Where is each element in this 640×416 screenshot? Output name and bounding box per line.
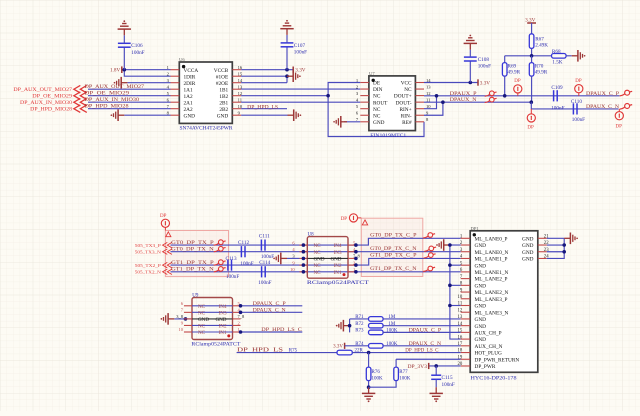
svg-text:U9: U9 bbox=[192, 294, 199, 299]
svg-text:49.9R: 49.9R bbox=[535, 69, 548, 75]
resistor R67 2.49K bbox=[529, 34, 548, 49]
port marker DPAUX_C_P bbox=[620, 90, 632, 96]
junction U9 right pin row 2 bbox=[239, 311, 243, 315]
blanket directive rectangle right bbox=[361, 218, 423, 276]
junction U9 right pin row 1 bbox=[239, 304, 243, 308]
wire U6 pin 15 (#1OE) bbox=[241, 75, 287, 77]
svg-text:14: 14 bbox=[238, 78, 243, 83]
wire R68 to ground bbox=[566, 55, 572, 57]
wire tie #1OE to #2OE bbox=[286, 76, 288, 83]
svg-text:#1OE: #1OE bbox=[216, 74, 228, 80]
svg-text:100K: 100K bbox=[386, 329, 398, 334]
svg-text:100nF: 100nF bbox=[240, 261, 253, 267]
svg-text:1B1: 1B1 bbox=[219, 87, 228, 93]
ground at U6 pin 15/14 (#1OE,#2OE) bbox=[287, 70, 301, 82]
svg-text:C108: C108 bbox=[478, 57, 490, 63]
svg-text:505_TX3_N: 505_TX3_N bbox=[135, 249, 162, 254]
svg-text:15: 15 bbox=[458, 329, 463, 334]
diff marker GT1_DP_TX_C_N bbox=[423, 266, 435, 271]
svg-text:GND: GND bbox=[522, 250, 534, 256]
svg-text:C114: C114 bbox=[259, 260, 270, 266]
junction U8 left pin row 4 bbox=[302, 263, 306, 267]
svg-text:RClamp0524PATCT: RClamp0524PATCT bbox=[191, 343, 240, 348]
svg-text:NC: NC bbox=[314, 270, 322, 276]
svg-text:100nF: 100nF bbox=[258, 280, 271, 286]
svg-text:IN1: IN1 bbox=[334, 270, 342, 276]
resistor R71 1M bbox=[350, 315, 461, 321]
wire R69 bottom to wire A bbox=[504, 76, 506, 96]
svg-text:R77: R77 bbox=[399, 370, 408, 375]
IC U9 RClamp0524PATCT body bbox=[176, 294, 245, 348]
svg-text:DP: DP bbox=[341, 217, 348, 222]
svg-text:GT1_DP_TX_C_P: GT1_DP_TX_C_P bbox=[370, 253, 416, 259]
svg-text:3.3V: 3.3V bbox=[333, 344, 343, 349]
svg-text:100nF: 100nF bbox=[226, 274, 239, 280]
capacitor C115 100nF bbox=[431, 366, 455, 388]
svg-text:NC: NC bbox=[198, 324, 206, 330]
junction U8 left pin row 2 bbox=[302, 250, 306, 254]
svg-text:GND: GND bbox=[522, 236, 534, 242]
wire U6 pin 12 (1B2) to U7 DE/RE# loop bbox=[241, 95, 328, 97]
port marker DPAUX_C_N bbox=[620, 104, 632, 110]
blanket directive rectangle left bbox=[165, 231, 228, 277]
junction U8 left pin row 3 bbox=[302, 257, 306, 261]
svg-text:DP_HPD_MIO28: DP_HPD_MIO28 bbox=[30, 107, 72, 113]
svg-text:15: 15 bbox=[238, 72, 243, 77]
junction R76 tap bbox=[367, 351, 371, 355]
svg-text:R70: R70 bbox=[535, 63, 544, 69]
svg-text:1A1: 1A1 bbox=[184, 87, 193, 93]
svg-text:DP_PWR_RETURN: DP_PWR_RETURN bbox=[475, 357, 520, 363]
wire U7 pin 14 (VCC) to 3.3V bbox=[424, 82, 478, 84]
svg-text:R76: R76 bbox=[372, 370, 381, 375]
svg-text:DP_AUX_OUT_MIO27: DP_AUX_OUT_MIO27 bbox=[85, 84, 145, 90]
svg-text:DP1: DP1 bbox=[471, 226, 480, 231]
capacitor C114 100nF series bbox=[258, 260, 271, 286]
svg-text:2A2: 2A2 bbox=[184, 107, 193, 113]
DP directive left blanket bbox=[160, 214, 171, 237]
svg-text:GND: GND bbox=[475, 263, 487, 269]
svg-text:DP_PWR: DP_PWR bbox=[475, 364, 496, 370]
svg-text:DE: DE bbox=[373, 81, 380, 87]
svg-text:R71: R71 bbox=[355, 315, 364, 320]
port DP_HPD_MIO28 bbox=[30, 105, 87, 113]
svg-text:DPAUX_N: DPAUX_N bbox=[450, 97, 477, 103]
svg-text:3.3V: 3.3V bbox=[295, 68, 305, 74]
svg-text:AUX_CH_P: AUX_CH_P bbox=[475, 330, 502, 336]
svg-text:505_TX2_P: 505_TX2_P bbox=[135, 263, 162, 268]
svg-text:14: 14 bbox=[458, 322, 463, 327]
power 3.3V at R74 bbox=[333, 343, 344, 350]
svg-text:12: 12 bbox=[238, 91, 243, 96]
diff marker GT0_DP_TX_C_P bbox=[423, 233, 435, 238]
diff marker GT1_DP_TX_C_P bbox=[424, 253, 436, 258]
junction #1OE bbox=[285, 74, 289, 78]
wire GT0_DP_TX_N lane bbox=[171, 251, 461, 253]
svg-text:C115: C115 bbox=[442, 375, 453, 381]
svg-text:HYC16-DP20-178: HYC16-DP20-178 bbox=[471, 376, 518, 381]
svg-text:12: 12 bbox=[458, 308, 463, 313]
svg-text:DP_AUX_IN_MIO30: DP_AUX_IN_MIO30 bbox=[85, 97, 140, 103]
wire 1.8V rail to U6 pin 1 (VCCA) bbox=[122, 69, 171, 71]
wire GT1_DP_TX_P lane bbox=[171, 258, 461, 265]
junction R76/R77 bottoms bbox=[367, 385, 371, 389]
svg-text:GT0_DP_TX_C_P: GT0_DP_TX_C_P bbox=[370, 233, 416, 239]
junction U8 right pin row 3 bbox=[354, 257, 358, 261]
wire DP_AUX_OUT_MIO27 to U6 pin 4 bbox=[88, 88, 171, 90]
svg-text:1B2: 1B2 bbox=[219, 94, 228, 100]
svg-text:1DIR: 1DIR bbox=[184, 74, 196, 80]
DP directive on DPAUX_C_N bbox=[615, 109, 623, 129]
svg-text:DP: DP bbox=[527, 125, 534, 130]
port DP_AUX_IN_MIO30 bbox=[20, 98, 87, 106]
svg-text:DPAUX_C_P: DPAUX_C_P bbox=[586, 91, 619, 97]
wire R67 bottom to rail bbox=[531, 48, 533, 55]
svg-text:GND: GND bbox=[215, 317, 226, 323]
port 505_TX2_N bbox=[135, 269, 172, 274]
svg-text:DP_HPD_LS_C: DP_HPD_LS_C bbox=[405, 348, 439, 354]
svg-text:RE#: RE# bbox=[402, 120, 412, 126]
resistor R73 100K bbox=[355, 329, 461, 335]
svg-text:GND: GND bbox=[373, 120, 385, 126]
svg-text:GND: GND bbox=[522, 243, 534, 249]
svg-text:C113: C113 bbox=[226, 256, 237, 262]
svg-text:DP_HPD_LS: DP_HPD_LS bbox=[247, 104, 278, 110]
svg-text:GT0_DP_TX_N: GT0_DP_TX_N bbox=[171, 247, 214, 253]
wire A DOUT+ / DPAUX_P bbox=[424, 95, 620, 97]
wire R77 top to DP1 pin19 bbox=[396, 358, 461, 360]
svg-text:19: 19 bbox=[458, 355, 463, 360]
wire DP_3V3 to DP1 pin20 bbox=[429, 365, 461, 367]
resistor R74 100K bbox=[345, 342, 461, 348]
svg-text:12: 12 bbox=[426, 91, 431, 96]
svg-text:VCCB: VCCB bbox=[214, 68, 229, 74]
ground at U7 pin 7 (GND) bbox=[333, 116, 360, 128]
wire RIN- loop bbox=[424, 102, 443, 115]
svg-text:18: 18 bbox=[458, 349, 463, 354]
capacitor C110 100nF series bbox=[571, 99, 585, 123]
ground at U6 pin 9 bbox=[288, 109, 302, 121]
svg-text:NC: NC bbox=[198, 330, 206, 336]
svg-text:VCCA: VCCA bbox=[184, 68, 199, 74]
svg-text:AUX_CH_N: AUX_CH_N bbox=[475, 344, 503, 350]
power DP_3V3 bbox=[408, 363, 429, 370]
junction GND bus pin2 bbox=[448, 243, 452, 247]
power 3.3V at U6 pin16 bbox=[293, 67, 306, 74]
svg-text:17: 17 bbox=[458, 342, 463, 347]
diff marker GT1_DP_TX_P bbox=[214, 260, 226, 265]
svg-text:R74: R74 bbox=[355, 342, 364, 347]
svg-text:1A2: 1A2 bbox=[184, 94, 193, 100]
wire DP1 pin8 GND bbox=[450, 284, 461, 286]
wire U6 pin 9 (GND) bbox=[241, 114, 287, 116]
svg-text:R73: R73 bbox=[355, 329, 364, 334]
svg-text:DIN: DIN bbox=[373, 87, 383, 93]
DP directive on DPAUX_P bbox=[514, 79, 522, 96]
svg-text:DP_HPD_MIO28: DP_HPD_MIO28 bbox=[85, 104, 129, 110]
svg-text:IN2: IN2 bbox=[219, 324, 227, 330]
svg-text:IN1: IN1 bbox=[219, 330, 227, 336]
svg-text:49.9R: 49.9R bbox=[508, 69, 521, 75]
svg-text:100nF: 100nF bbox=[442, 382, 455, 388]
wire B drop and run to C110 bbox=[531, 102, 618, 109]
power 3.3V at U7 VCC bbox=[478, 79, 490, 86]
svg-text:DP: DP bbox=[575, 79, 582, 84]
junction RIN- on wire B bbox=[441, 100, 445, 104]
wire DP_HPD_MIO28 to U6 pin 7 bbox=[88, 108, 171, 110]
junction U8 right pin row 4 bbox=[354, 263, 358, 267]
svg-text:VCC: VCC bbox=[401, 81, 412, 87]
svg-text:#2OE: #2OE bbox=[216, 81, 228, 87]
resistor R75 22R bbox=[237, 349, 461, 355]
svg-text:13: 13 bbox=[458, 315, 463, 320]
junction R70 on wire B bbox=[530, 100, 534, 104]
ground at U8 GND left bbox=[273, 253, 299, 265]
port DP_AUX_OUT_MIO27 bbox=[13, 85, 86, 93]
ground above C107 bbox=[280, 20, 293, 35]
wire DP1 pins 21-24 to ground bbox=[547, 237, 564, 239]
wire 1.8V drop to U6 pin 2 (1DIR) bbox=[124, 70, 170, 77]
capacitor C112 100nF series bbox=[238, 240, 254, 267]
junction C107 / pin16 rail bbox=[285, 68, 289, 72]
ground at U9 GND bbox=[161, 313, 192, 325]
svg-text:16: 16 bbox=[238, 65, 243, 70]
power 1.8V bbox=[110, 66, 122, 73]
capacitor C106 100nF bbox=[118, 35, 145, 69]
svg-text:2.49K: 2.49K bbox=[535, 43, 548, 49]
IC U7 FIN1019MTC1 body bbox=[356, 71, 431, 139]
diff marker GT1_DP_TX_N bbox=[214, 267, 226, 272]
svg-text:ML_LANE0_P: ML_LANE0_P bbox=[475, 236, 508, 242]
svg-text:DP: DP bbox=[616, 124, 623, 129]
svg-text:DOUT-: DOUT- bbox=[396, 100, 412, 106]
wire DP1 pin5 GND bbox=[450, 264, 461, 266]
svg-text:505_TX3_P: 505_TX3_P bbox=[135, 243, 162, 248]
svg-text:R68: R68 bbox=[552, 49, 561, 55]
svg-text:HOT_PLUG: HOT_PLUG bbox=[475, 351, 503, 357]
svg-text:100nF: 100nF bbox=[572, 117, 585, 123]
svg-text:11: 11 bbox=[238, 98, 243, 103]
svg-text:2: 2 bbox=[238, 321, 240, 326]
svg-text:ML_LANE2_N: ML_LANE2_N bbox=[475, 290, 509, 296]
ground at U6 pin 8 (GND) bbox=[111, 109, 171, 121]
diff marker GT0_DP_TX_C_N bbox=[424, 246, 436, 251]
svg-text:C110: C110 bbox=[571, 99, 582, 105]
svg-text:NC: NC bbox=[198, 304, 206, 310]
svg-text:10: 10 bbox=[426, 104, 431, 109]
svg-text:NC: NC bbox=[373, 107, 381, 113]
junction at 1.8V rail / C106 bbox=[123, 68, 127, 72]
junction right gnd 23 bbox=[562, 250, 566, 254]
svg-text:3.3V: 3.3V bbox=[480, 80, 490, 86]
junction RIN+ on wire A bbox=[435, 94, 439, 98]
svg-text:U8: U8 bbox=[308, 233, 315, 238]
wire RIN+ loop bbox=[424, 96, 437, 109]
connector DP1 HYC16-DP20-178 body bbox=[458, 226, 550, 381]
ground at U6 pin 3 (2DIR) bbox=[114, 77, 171, 89]
junction R72 common bbox=[348, 324, 352, 328]
svg-text:IN4: IN4 bbox=[334, 243, 342, 249]
svg-text:22R: 22R bbox=[355, 349, 364, 354]
port 505_TX3_P bbox=[135, 242, 172, 247]
svg-text:GND: GND bbox=[475, 243, 487, 249]
svg-text:GND: GND bbox=[475, 337, 487, 343]
svg-text:IN2: IN2 bbox=[334, 263, 342, 269]
wire B DOUT- / DPAUX_N bbox=[424, 101, 531, 103]
svg-text:NC: NC bbox=[198, 310, 206, 316]
svg-text:GT1_DP_TX_N: GT1_DP_TX_N bbox=[171, 267, 214, 273]
svg-text:C107: C107 bbox=[294, 43, 306, 49]
svg-text:ML_LANE0_N: ML_LANE0_N bbox=[475, 250, 509, 256]
svg-text:ROUT: ROUT bbox=[373, 100, 388, 106]
svg-text:DPAUX_C_N: DPAUX_C_N bbox=[253, 308, 286, 314]
svg-text:GND: GND bbox=[475, 324, 487, 330]
ground at DP1 pin 2 GND bus bbox=[436, 239, 450, 251]
wire U9 IN3 DPAUX_C_N bbox=[241, 311, 303, 313]
wire DP1 pin2 GND bbox=[450, 244, 461, 246]
svg-text:GT1_DP_TX_C_N: GT1_DP_TX_C_N bbox=[370, 266, 417, 272]
capacitor C107 100nF bbox=[281, 35, 308, 70]
ground below R76 bbox=[362, 387, 375, 402]
svg-text:20: 20 bbox=[458, 362, 463, 367]
wire U7 DE to RE# loop bbox=[328, 83, 424, 137]
resistor R70 49.9R bbox=[529, 56, 547, 76]
svg-text:DP_HPD_LS_C: DP_HPD_LS_C bbox=[261, 327, 302, 333]
svg-text:NC: NC bbox=[314, 243, 322, 249]
svg-text:GT0_DP_TX_C_N: GT0_DP_TX_C_N bbox=[370, 246, 417, 252]
wire U9 IN4 DPAUX_C_P bbox=[241, 305, 303, 307]
svg-text:GND: GND bbox=[198, 317, 209, 323]
wire DP_AUX_IN_MIO30 to U6 pin 6 bbox=[88, 101, 171, 103]
wire U6 pin 13 (1B1) to U7 pin 2 (DIN) bbox=[241, 88, 360, 90]
svg-text:GND: GND bbox=[475, 283, 487, 289]
svg-text:GT1_DP_TX_P: GT1_DP_TX_P bbox=[171, 260, 214, 266]
svg-text:DP_3V3: DP_3V3 bbox=[408, 364, 428, 370]
svg-text:DP: DP bbox=[160, 214, 167, 219]
svg-text:100nF: 100nF bbox=[551, 106, 564, 112]
svg-text:2A1: 2A1 bbox=[184, 100, 193, 106]
svg-text:11: 11 bbox=[426, 97, 431, 102]
junction U8 left pin row 5 bbox=[302, 270, 306, 274]
svg-text:DP_AUX_IN_MIO30: DP_AUX_IN_MIO30 bbox=[20, 100, 72, 106]
svg-text:100nF: 100nF bbox=[478, 64, 491, 70]
svg-text:7_8: 7_8 bbox=[238, 314, 246, 319]
IC U6 SN74AVCH4T245PWR body bbox=[167, 57, 243, 132]
wire R71/R72/R73 common bbox=[349, 319, 351, 332]
svg-text:13: 13 bbox=[238, 85, 243, 90]
resistor R69 49.9R bbox=[502, 56, 520, 76]
svg-text:DPAUX_P: DPAUX_P bbox=[450, 91, 477, 97]
svg-text:100nF: 100nF bbox=[294, 50, 307, 56]
junction GND bus pin11 bbox=[448, 304, 452, 308]
resistor R76 100K bbox=[366, 353, 383, 388]
svg-text:C109: C109 bbox=[551, 85, 563, 91]
port 505_TX3_N bbox=[135, 249, 172, 254]
wire DP1 GND bus bbox=[450, 245, 461, 339]
svg-text:SN74AVCH4T245PWR: SN74AVCH4T245PWR bbox=[180, 127, 234, 132]
svg-text:R72: R72 bbox=[355, 322, 364, 327]
ground left of R71-R73 bbox=[336, 320, 350, 332]
wire R70 bottom to wire B bbox=[531, 76, 533, 102]
svg-text:DP: DP bbox=[514, 79, 521, 84]
svg-text:U7: U7 bbox=[369, 71, 375, 76]
junction GND bus pin5 bbox=[448, 263, 452, 267]
svg-text:GND: GND bbox=[184, 113, 196, 119]
svg-text:10: 10 bbox=[458, 295, 463, 300]
svg-text:ML_LANE1_N: ML_LANE1_N bbox=[475, 270, 509, 276]
capacitor C109 100nF series bbox=[551, 85, 564, 112]
svg-text:DPAUX_C_P: DPAUX_C_P bbox=[409, 328, 442, 334]
svg-text:ML_LANE2_P: ML_LANE2_P bbox=[475, 277, 508, 283]
svg-text:DP_OE_MIO29: DP_OE_MIO29 bbox=[32, 94, 72, 100]
svg-text:RClamp0524PATCT: RClamp0524PATCT bbox=[307, 281, 369, 286]
DP directive right blanket bbox=[341, 214, 368, 225]
wire U6 pin 10 (2B2) DP_HPD_LS bbox=[241, 108, 287, 110]
svg-text:IN3: IN3 bbox=[219, 310, 227, 316]
ground right of DP1 bbox=[564, 233, 578, 245]
svg-text:DP_AUX_OUT_MIO27: DP_AUX_OUT_MIO27 bbox=[13, 87, 72, 93]
svg-text:14: 14 bbox=[426, 78, 431, 83]
svg-text:GND: GND bbox=[330, 257, 341, 263]
junction U8 right pin row 1 bbox=[354, 243, 358, 247]
svg-text:NC: NC bbox=[373, 113, 381, 119]
wire U6 pin 11 (2B1) to U7 pin 4 (ROUT) bbox=[241, 101, 360, 103]
junction R67/R70/rail bbox=[530, 54, 534, 58]
svg-text:2DIR: 2DIR bbox=[184, 81, 196, 87]
svg-text:ML_LANE3_N: ML_LANE3_N bbox=[475, 310, 509, 316]
svg-text:13: 13 bbox=[426, 84, 431, 89]
ground right of R68 bbox=[572, 50, 586, 62]
svg-text:U6: U6 bbox=[179, 57, 185, 62]
diff pair marker on DPAUX_P bbox=[485, 91, 497, 96]
wire DP1 pin11 GND bbox=[450, 305, 461, 307]
junction U8 left pin row 1 bbox=[302, 243, 306, 247]
svg-text:DPAUX_C_N: DPAUX_C_N bbox=[586, 104, 619, 110]
svg-text:GT0_DP_TX_P: GT0_DP_TX_P bbox=[171, 240, 214, 246]
svg-text:100K: 100K bbox=[399, 377, 411, 382]
resistor R72 1M bbox=[355, 322, 461, 328]
power 3.3V above R67 bbox=[525, 18, 536, 34]
svg-text:RIN+: RIN+ bbox=[399, 107, 411, 113]
svg-text:100nF: 100nF bbox=[261, 254, 274, 260]
svg-text:DP_OE_MIO29: DP_OE_MIO29 bbox=[85, 91, 130, 97]
diff marker GT0_DP_TX_N bbox=[214, 246, 226, 251]
ground below C115 bbox=[430, 387, 443, 402]
svg-text:GND: GND bbox=[314, 257, 325, 263]
capacitor C113 100nF series bbox=[226, 256, 240, 280]
junction C115 bbox=[434, 364, 438, 368]
junction GND bus pin8 bbox=[448, 284, 452, 288]
svg-text:3_8: 3_8 bbox=[176, 314, 184, 319]
junction DE/RE# loop at 1B2 wire bbox=[326, 94, 330, 98]
capacitor C111 100nF series bbox=[259, 233, 274, 260]
svg-text:10: 10 bbox=[238, 104, 243, 109]
svg-text:GND: GND bbox=[217, 113, 229, 119]
junction C108 bbox=[469, 81, 473, 85]
svg-text:NC: NC bbox=[314, 263, 322, 269]
svg-text:ML_LANE3_P: ML_LANE3_P bbox=[475, 297, 508, 303]
svg-text:16: 16 bbox=[458, 335, 463, 340]
svg-text:10: 10 bbox=[179, 327, 184, 332]
svg-text:1M: 1M bbox=[388, 315, 396, 320]
ground above C108 bbox=[464, 35, 477, 50]
svg-text:2B1: 2B1 bbox=[219, 100, 228, 106]
svg-text:1.8V: 1.8V bbox=[110, 68, 120, 74]
svg-text:GND: GND bbox=[522, 257, 534, 263]
diff marker GT0_DP_TX_P bbox=[214, 240, 226, 245]
svg-text:R69: R69 bbox=[508, 63, 517, 69]
wire U6 pin 16 (VCCB) to 3.3V bbox=[241, 69, 293, 71]
